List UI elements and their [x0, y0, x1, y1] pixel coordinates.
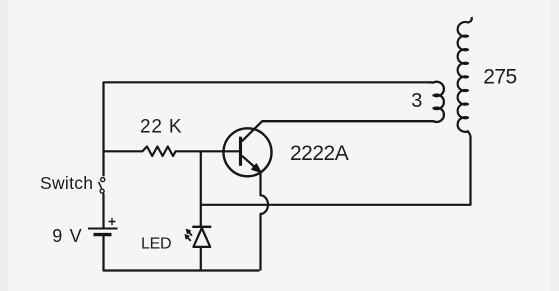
- svg-text:LED: LED: [141, 236, 171, 253]
- svg-text:Switch: Switch: [40, 173, 93, 193]
- svg-text:22 K: 22 K: [140, 117, 182, 138]
- svg-text:275: 275: [483, 66, 517, 89]
- svg-text:2222A: 2222A: [290, 142, 349, 165]
- svg-text:9 V: 9 V: [52, 226, 83, 246]
- svg-text:3: 3: [411, 90, 422, 112]
